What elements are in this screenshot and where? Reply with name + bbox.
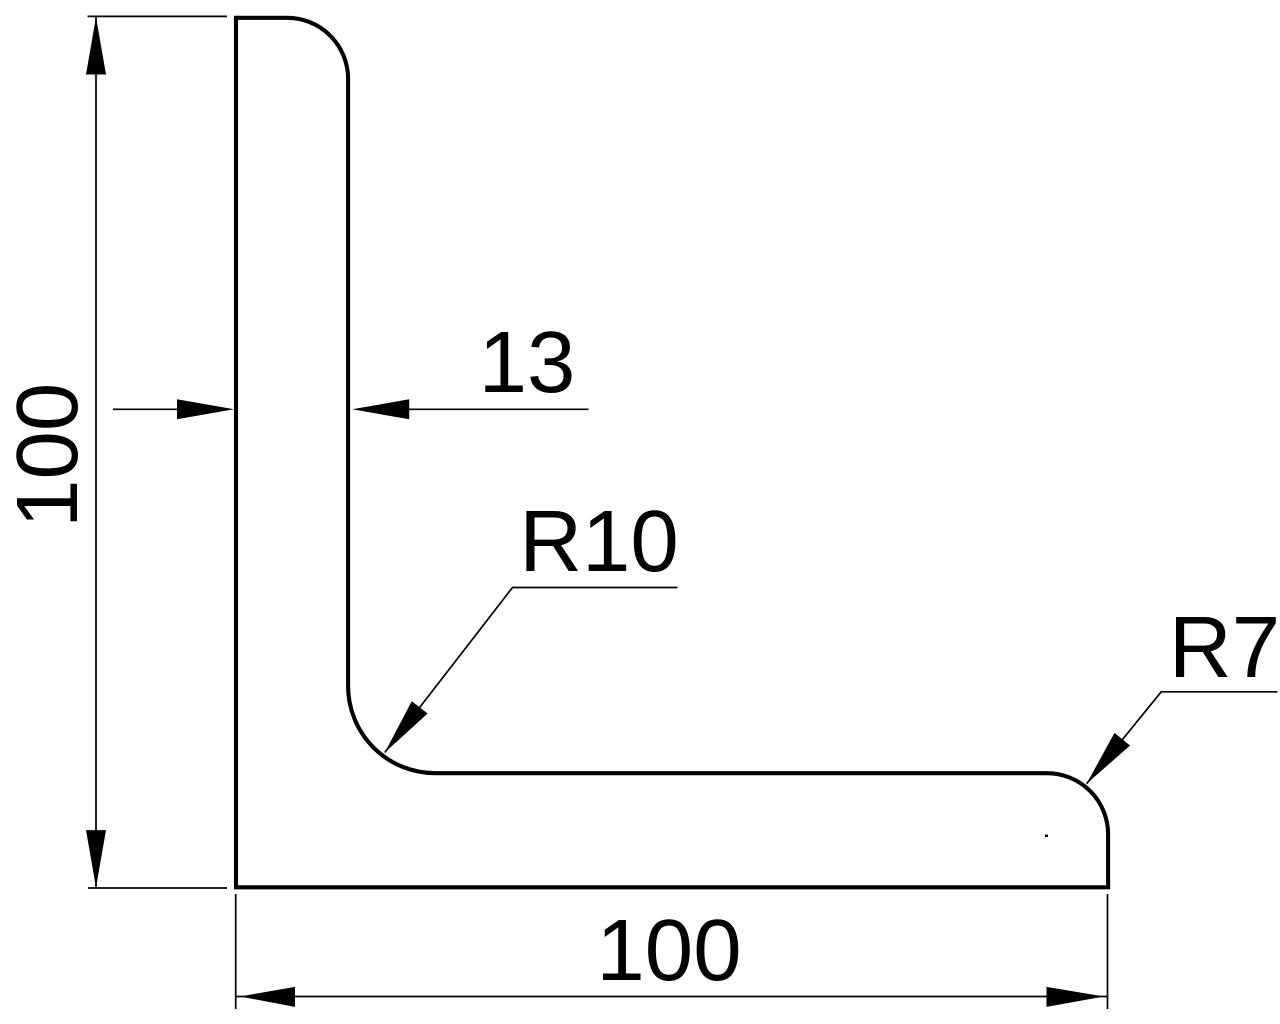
bottom 100 right extension line xyxy=(1107,894,1109,1009)
svg-text:13: 13 xyxy=(479,314,576,411)
svg-text:100: 100 xyxy=(0,383,96,528)
left 100 dim arrow down xyxy=(86,830,106,888)
13 dim right arrow pointing left xyxy=(352,399,409,419)
13 dim left arrow pointing right xyxy=(177,399,234,419)
left 100 dim arrow up xyxy=(86,17,106,75)
bottom-left extension line (left 100 dim) xyxy=(88,887,227,889)
svg-text:R7: R7 xyxy=(1169,599,1280,696)
bottom 100 dim arrow left xyxy=(240,987,295,1007)
bottom 100 dim arrow right xyxy=(1047,987,1105,1007)
R10 leader line xyxy=(385,588,678,753)
left 100 dimension line xyxy=(95,17,97,888)
svg-text:R10: R10 xyxy=(519,493,679,590)
L-angle profile outline xyxy=(236,18,1108,888)
R7 leader arrowhead xyxy=(1087,733,1131,784)
svg-text:100: 100 xyxy=(596,902,741,999)
top extension line (left 100 dim) xyxy=(88,15,228,17)
bottom 100 left extension line xyxy=(235,894,237,1009)
R7 leader line xyxy=(1087,692,1278,784)
bottom 100 dimension line xyxy=(237,996,1108,998)
stray dot xyxy=(1045,835,1048,838)
13 dim left tail line xyxy=(113,408,180,410)
R10 leader arrowhead xyxy=(385,701,428,752)
13 dim right tail line xyxy=(406,408,589,410)
